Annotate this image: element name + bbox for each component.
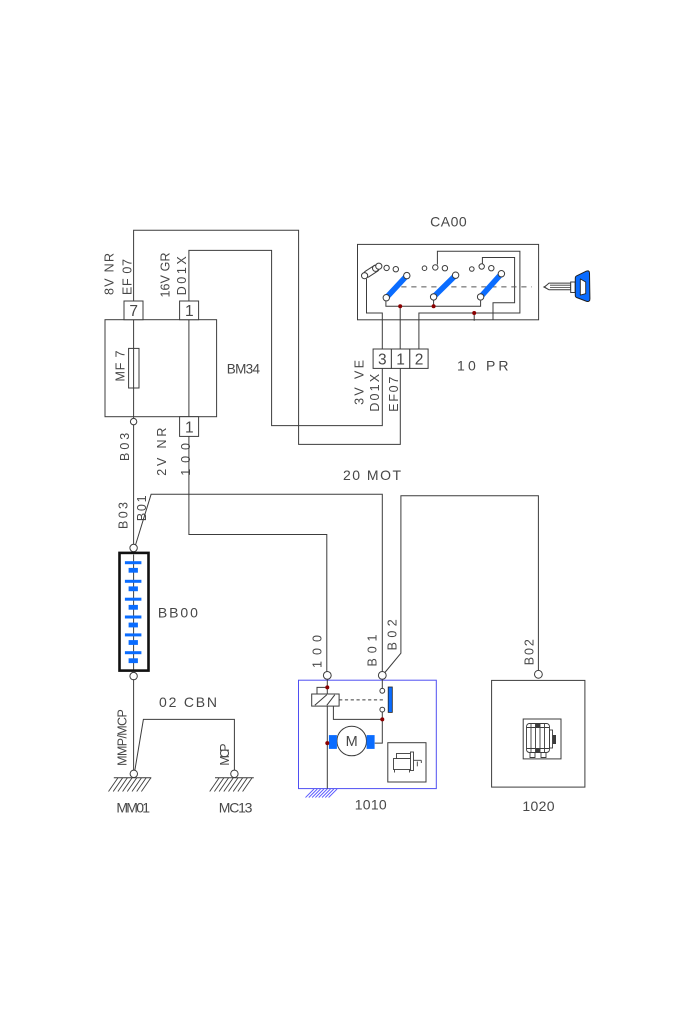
- svg-text:16V GR: 16V GR: [159, 253, 173, 298]
- svg-text:D01X: D01X: [368, 373, 382, 411]
- ground hatch starter: [306, 789, 338, 798]
- pin 1 BM34 bottom: [180, 417, 199, 437]
- switch blade 1: [383, 272, 410, 301]
- battery BB00: [120, 544, 149, 680]
- wire switch common bottom: [386, 301, 481, 307]
- junction contact-coil: [380, 717, 384, 721]
- svg-text:MF 7: MF 7: [114, 350, 128, 381]
- contact circle top: [380, 688, 385, 693]
- svg-text:8V NR: 8V NR: [103, 253, 117, 295]
- brush left: [329, 735, 337, 749]
- svg-text:20 MOT: 20 MOT: [343, 467, 401, 483]
- wire through BM34 left: [133, 320, 135, 419]
- contact bar: [388, 687, 392, 712]
- contact circles blade 3: [470, 264, 494, 272]
- wire coil to contact: [333, 706, 382, 719]
- junction case stub: [472, 311, 476, 315]
- svg-text:MM01: MM01: [116, 799, 150, 815]
- svg-text:10 PR: 10 PR: [457, 358, 509, 374]
- key barrel contact: [362, 263, 382, 279]
- svg-text:EF 07: EF 07: [121, 259, 135, 295]
- svg-text:1: 1: [185, 303, 194, 320]
- wire 02 CBN: [135, 719, 235, 770]
- connector 10PR pin 3: [373, 349, 391, 368]
- brush right: [367, 735, 375, 749]
- svg-text:BM34: BM34: [227, 362, 261, 377]
- svg-text:02 CBN: 02 CBN: [159, 694, 217, 710]
- alternator icon box: [523, 719, 561, 759]
- fuse MF7: [129, 348, 139, 388]
- wire D01X BM34 pin1 to CA00 pin3: [189, 250, 382, 425]
- key symbol: [543, 271, 590, 302]
- starter icon: [394, 752, 422, 773]
- dashed actuator link: [339, 699, 384, 701]
- wire blade3 fixed contact to case: [482, 258, 514, 320]
- junction blade2 bottom: [432, 304, 436, 308]
- svg-text:3: 3: [378, 352, 387, 369]
- svg-text:7: 7: [129, 303, 138, 320]
- junction motor ground: [325, 741, 329, 745]
- svg-text:MMP/MCP: MMP/MCP: [116, 709, 130, 766]
- wire through BM34 right: [188, 320, 190, 417]
- node BM34 bottom: [130, 418, 136, 424]
- terminal 100 starter: [323, 672, 331, 680]
- alternator icon: [527, 724, 557, 758]
- solenoid coil: [312, 694, 339, 706]
- connector 10PR pin 2: [410, 349, 428, 368]
- junction coil feed: [325, 685, 329, 689]
- starter icon box: [388, 743, 426, 782]
- fuse box BM34: [105, 320, 217, 417]
- wire contact to motor: [375, 712, 383, 743]
- terminal B02 alternator: [535, 670, 543, 678]
- junction common-pin1: [398, 304, 402, 308]
- switch blade 3: [477, 271, 504, 301]
- svg-text:2: 2: [415, 352, 424, 369]
- connector 10PR pin 1: [391, 349, 409, 368]
- wire pin2 to blade2 fixed contact: [419, 251, 520, 349]
- svg-text:1010: 1010: [355, 796, 387, 812]
- pin 7 BM34: [124, 301, 143, 320]
- wire 100 inside starter: [326, 679, 328, 788]
- wire blade2 bottom stub: [433, 300, 435, 306]
- wire 100 BM34 to starter: [189, 436, 327, 671]
- svg-text:B03: B03: [118, 433, 132, 461]
- wire B03 battery to BM34: [133, 425, 135, 545]
- svg-text:100: 100: [310, 635, 324, 668]
- wire B02 starter to alternator: [385, 496, 539, 673]
- contact circles blade 2: [422, 265, 447, 271]
- alternator 1020 box: [492, 680, 585, 787]
- switch blade 2: [430, 272, 458, 300]
- svg-text:M: M: [346, 734, 358, 750]
- wire EF07 BM34 pin7 to CA00 pin1: [134, 230, 401, 444]
- svg-text:MCP: MCP: [218, 743, 232, 765]
- contact circles blade 1: [384, 265, 399, 272]
- svg-text:1: 1: [396, 352, 405, 369]
- svg-text:1: 1: [185, 419, 194, 436]
- svg-text:D01X: D01X: [175, 256, 189, 296]
- wire coil feed step: [317, 687, 327, 694]
- svg-text:2V NR: 2V NR: [155, 428, 169, 476]
- starter motor 1010 box: [299, 680, 437, 788]
- wire B01 to contact: [381, 679, 383, 688]
- svg-text:B02: B02: [522, 639, 536, 665]
- svg-text:1020: 1020: [522, 798, 554, 814]
- svg-text:MC13: MC13: [219, 799, 253, 815]
- svg-text:B02: B02: [386, 619, 400, 650]
- ignition switch CA00 box: [358, 244, 539, 319]
- contact circle bottom: [380, 707, 385, 712]
- terminal B01 starter: [378, 672, 386, 680]
- wire B01 battery to starter: [135, 494, 382, 671]
- svg-text:B01: B01: [366, 634, 380, 666]
- svg-text:B03: B03: [116, 502, 130, 529]
- ground MC13: [210, 770, 254, 791]
- svg-text:BB00: BB00: [158, 605, 198, 621]
- wire battery to ground MM01: [133, 679, 135, 770]
- svg-text:3V VE: 3V VE: [352, 360, 366, 405]
- wire key barrel to pin3: [367, 279, 383, 349]
- svg-text:CA00: CA00: [430, 214, 467, 230]
- svg-text:EF07: EF07: [387, 377, 401, 412]
- wire common to pin1: [399, 306, 401, 349]
- pin 1 BM34 top: [180, 301, 199, 320]
- mechanical link dashed line: [401, 286, 532, 288]
- wire stub at case: [473, 313, 475, 321]
- svg-text:100: 100: [179, 443, 193, 476]
- motor M: [337, 726, 367, 756]
- ground MM01: [109, 770, 152, 791]
